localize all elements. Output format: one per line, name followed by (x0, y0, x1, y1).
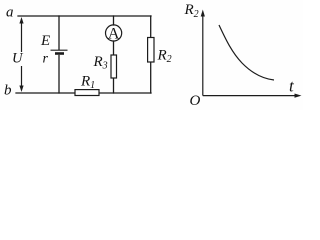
wire battery branch top (58, 16, 60, 50)
svg-text:t: t (289, 77, 295, 96)
graph y-axis (202, 15, 204, 96)
svg-text:R3: R3 (93, 54, 108, 72)
wire ammeter to R3 (113, 41, 115, 55)
wire battery branch bottom (58, 56, 60, 94)
wire right branch bottom (150, 62, 152, 93)
ammeter U1 circle (106, 25, 122, 41)
wire right branch top (150, 16, 152, 38)
svg-text:O: O (190, 93, 201, 109)
resistor R1 body (75, 90, 99, 96)
wire ammeter branch top (113, 16, 115, 25)
wire bottom (16, 92, 151, 94)
U arrowhead down (19, 86, 23, 93)
wire R3 to bottom (113, 78, 115, 93)
battery E r (51, 50, 68, 53)
U arrow upper shaft (21, 22, 23, 52)
U arrowhead up (19, 17, 23, 24)
svg-text:r: r (43, 52, 49, 67)
svg-text:b: b (4, 83, 12, 99)
U arrow lower shaft (21, 66, 23, 87)
wire top (18, 15, 151, 17)
resistor R2 body (148, 38, 154, 63)
svg-text:R1: R1 (80, 73, 95, 91)
svg-text:R2: R2 (184, 2, 199, 20)
svg-text:a: a (6, 5, 14, 21)
graph curve R2 vs t (219, 25, 274, 80)
graph x-axis (203, 95, 295, 97)
graph x-axis arrowhead (295, 94, 302, 98)
svg-text:U: U (12, 51, 24, 67)
resistor R3 body (111, 55, 117, 78)
graph y-axis arrowhead (201, 10, 205, 17)
svg-text:R2: R2 (157, 48, 172, 66)
svg-text:E: E (40, 33, 50, 49)
svg-text:A: A (108, 26, 120, 43)
